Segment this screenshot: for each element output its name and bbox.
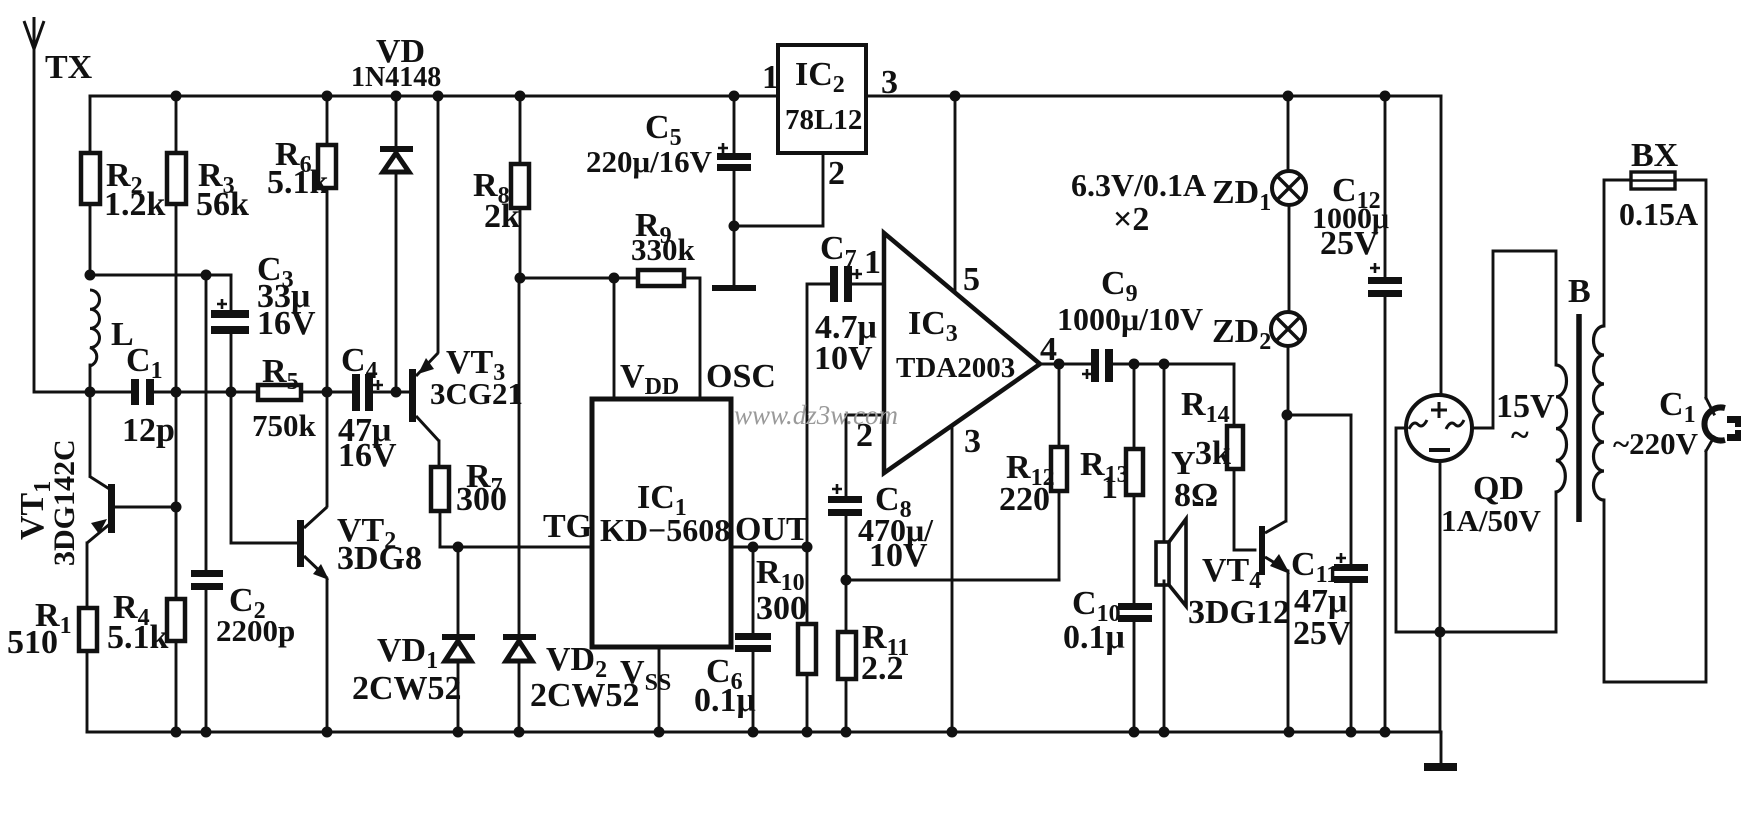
junction R5 right VT2 collector node <box>322 387 333 398</box>
wire node278 horizontal R8 to R9/VDD node <box>520 277 638 280</box>
wire R2 bottom lead to node row 275 <box>89 204 92 275</box>
svg-text:10V: 10V <box>814 340 873 377</box>
resistor R2 <box>81 153 100 204</box>
junction C12 top on rail <box>1380 91 1391 102</box>
svg-text:TX: TX <box>45 49 93 86</box>
capacitor C1 plates <box>131 379 139 405</box>
wire C11 top lead <box>1350 415 1353 564</box>
junction AC link crossing <box>1435 627 1446 638</box>
IC1 KD-5608 box <box>592 399 731 647</box>
junction C6 on ground rail <box>748 727 759 738</box>
capacitor C4 plates <box>352 374 360 411</box>
wire R10 bottom lead to ground rail <box>806 674 809 732</box>
wire C12 top lead from rail <box>1384 96 1387 277</box>
svg-text:5.1k: 5.1k <box>267 164 329 201</box>
capacitor C9 plates <box>1091 349 1099 382</box>
svg-text:5: 5 <box>963 261 980 298</box>
svg-text:3DG12: 3DG12 <box>1188 594 1290 631</box>
wire output line pin4 to C9 <box>1040 363 1092 366</box>
svg-text:220: 220 <box>999 481 1050 518</box>
svg-text:QD: QD <box>1473 470 1524 507</box>
wire C8 bottom lead to R11 node <box>845 516 848 580</box>
svg-text:~: ~ <box>1511 417 1529 454</box>
svg-text:OUT: OUT <box>735 511 809 548</box>
wire L bottom to node 392 <box>89 365 92 392</box>
resistor R4 <box>167 599 185 641</box>
ground symbol main <box>1424 763 1457 771</box>
junction VD2 on ground rail <box>514 727 525 738</box>
wire VD1 bottom lead to ground rail <box>457 664 460 732</box>
wire C2 bottom lead to ground rail <box>205 588 208 732</box>
svg-text:56k: 56k <box>196 186 249 223</box>
junction R6 top on rail <box>322 91 333 102</box>
svg-text:~220V: ~220V <box>1613 426 1699 461</box>
svg-text:TG: TG <box>543 508 592 545</box>
wire R1 bottom lead to ground rail <box>86 651 89 732</box>
wire plug lower stub <box>1706 437 1714 451</box>
capacitor C12 plates <box>1368 277 1402 284</box>
diode VD cathode bar <box>380 146 413 152</box>
lamp ZD2 <box>1271 312 1305 346</box>
svg-text:1: 1 <box>1101 469 1118 506</box>
svg-text:1: 1 <box>864 244 881 281</box>
junction VSS on ground rail <box>654 727 665 738</box>
wire output line C9 to R14 elbow <box>1114 363 1234 366</box>
wire fuse right lead down to plug <box>1675 180 1706 398</box>
svg-text:25V: 25V <box>1320 225 1379 262</box>
transistor VT3 <box>409 353 439 441</box>
svg-text:2.2: 2.2 <box>861 650 904 687</box>
wire IC3 pin3 ground lead <box>951 425 954 732</box>
wire VT4 emitter lead down to ground rail <box>1287 571 1290 732</box>
svg-text:220μ/16V: 220μ/16V <box>586 144 713 179</box>
wire OUT line from IC1 to R10 node <box>731 546 807 549</box>
plus mark C5 <box>718 143 728 153</box>
wire VT3 emitter lead up to rail <box>437 96 440 352</box>
junction R4 on ground rail <box>171 727 182 738</box>
wire R11 bottom lead to ground rail <box>845 679 848 732</box>
IC2 78L12 box <box>778 45 866 153</box>
wire IC3 pin2 stub <box>846 415 884 495</box>
junction IC3 pin3 on ground rail <box>947 727 958 738</box>
wire R14 top elbow <box>1233 364 1236 426</box>
wire secondary winding bottom loop <box>1604 451 1706 682</box>
resistor R8 <box>511 164 529 208</box>
plus mark C4 <box>373 380 383 390</box>
zener VD2 cathode bar <box>503 634 536 640</box>
resistor R11 <box>838 632 856 679</box>
wire C6 bottom lead to ground rail <box>752 652 755 732</box>
wire IC2 pin2 elbow <box>734 153 823 226</box>
op-amp IC3 TDA2003 triangle <box>884 233 1040 473</box>
svg-text:8Ω: 8Ω <box>1174 477 1218 514</box>
wire TG line to IC1 <box>440 546 592 549</box>
svg-text:5.1k: 5.1k <box>107 619 169 656</box>
svg-text:BX: BX <box>1631 137 1679 174</box>
capacitor C7 plates <box>830 266 838 302</box>
wire C3 bottom lead to R5 node <box>230 334 233 392</box>
resistor R14 <box>1227 426 1243 469</box>
svg-text:510: 510 <box>7 624 58 661</box>
svg-text:3: 3 <box>964 423 981 460</box>
wire VD1 top lead from TG line <box>457 547 460 634</box>
resistor R1 <box>79 608 97 651</box>
junction VD1 on ground rail <box>453 727 464 738</box>
junction C2 on ground rail <box>201 727 212 738</box>
wire R3 bottom lead down through C1 node to VT1 base node <box>175 204 178 599</box>
wire C2 top lead from node row 275 <box>205 275 208 570</box>
capacitor C8 plates <box>828 496 862 503</box>
junction R11 on ground rail <box>841 727 852 738</box>
junction C3 bottom R5 left node <box>226 387 237 398</box>
wire VD2 bottom lead to ground rail <box>518 664 521 732</box>
wire top supply rail right segment (IC2 pin3 to rectifier) <box>866 95 1441 98</box>
junction C12 on ground rail <box>1380 727 1391 738</box>
wire C4 right plate to VD/VT3 base node <box>373 391 410 394</box>
capacitor C3 plates <box>211 310 249 318</box>
svg-text:750k: 750k <box>252 408 317 443</box>
antenna TX <box>24 17 44 49</box>
wire ZD2 bottom to collector node <box>1287 347 1290 415</box>
wire R10 top lead <box>806 547 809 624</box>
svg-text:0.15A: 0.15A <box>1619 196 1698 232</box>
zener VD1 cathode bar <box>442 634 475 640</box>
resistor R12 <box>1051 447 1067 491</box>
svg-text:3k: 3k <box>1195 435 1231 472</box>
svg-text:3: 3 <box>881 64 898 101</box>
junction C8 R11 feedback node <box>841 575 852 586</box>
plus mark C7 <box>852 269 862 279</box>
wire rectifier minus down to ground (crosses AC link) <box>1439 461 1442 732</box>
plus mark C11 <box>1336 553 1346 563</box>
transistor VT1 <box>87 476 115 543</box>
wire rectifier right AC elbow up and over to primary winding <box>1472 251 1556 428</box>
wire speaker bottom lead to ground rail <box>1163 581 1166 732</box>
svg-text:300: 300 <box>456 481 507 518</box>
capacitor C5 plates <box>717 153 751 160</box>
svg-text:16V: 16V <box>257 305 316 342</box>
wire R13 top lead from output node <box>1133 364 1136 449</box>
wire VT2 collector lead up to node 392 <box>326 392 329 506</box>
wire C7 to IC3 pin1 stub <box>852 283 884 286</box>
wire R6 bottom lead to node 392 <box>326 188 329 392</box>
wire ZD1 to ZD2 link <box>1288 206 1291 312</box>
wire node415 to C11 <box>1287 414 1351 417</box>
capacitor C2 plates <box>191 570 223 577</box>
diode VD triangle <box>383 153 409 172</box>
speaker Y <box>1156 519 1186 606</box>
junction R3 bottom node 392 <box>171 387 182 398</box>
wire VDD pin lead <box>613 278 616 399</box>
junction lamp chain on rail <box>1283 91 1294 102</box>
wire C5 top lead from rail <box>733 96 736 153</box>
svg-text:4: 4 <box>1040 331 1057 368</box>
wire R2 top lead from rail <box>89 96 92 153</box>
svg-text:2: 2 <box>828 155 845 192</box>
junction C11 on ground rail <box>1346 727 1357 738</box>
plus mark C12 <box>1370 263 1380 273</box>
svg-text:12p: 12p <box>122 412 175 449</box>
svg-text:1N4148: 1N4148 <box>351 62 441 93</box>
wire R9 right lead and OSC pin lead <box>684 278 700 399</box>
junction L bottom node 392 <box>85 387 96 398</box>
plus mark C3 <box>217 299 227 309</box>
wire VD diode bottom lead to VT3 base node <box>395 173 398 392</box>
junction C6 on OUT line <box>748 542 759 553</box>
ground bar at C5 <box>712 285 756 291</box>
junction R10 on ground rail <box>802 727 813 738</box>
wire lamp chain lead from rail to ZD1 <box>1287 96 1290 171</box>
wire R8 node down to VD2 (crosses TG line) <box>518 278 521 634</box>
junction C2 top node 275 <box>201 270 212 281</box>
wire top supply rail left segment <box>90 95 778 98</box>
wire R14 bottom lead to VT4 base <box>1234 469 1255 550</box>
wire R8 top lead from rail <box>519 96 522 164</box>
svg-text:2200p: 2200p <box>216 613 295 648</box>
wire fuse left lead to secondary winding <box>1604 180 1631 326</box>
wire VT2 base elbow from R5 left node <box>231 392 297 543</box>
junction IC3 pin5 on rail <box>950 91 961 102</box>
fuse BX <box>1631 172 1675 189</box>
svg-text:3CG21: 3CG21 <box>430 376 523 411</box>
wire ground stem <box>1440 732 1443 763</box>
junction C10 on ground rail <box>1129 727 1140 738</box>
capacitor C10 plates <box>1118 603 1152 610</box>
svg-text:25V: 25V <box>1293 615 1352 652</box>
junction R10 C7 OUT node <box>802 542 813 553</box>
wire rail corner down to rectifier plus <box>1440 96 1443 395</box>
resistor R10 <box>798 624 816 674</box>
wire VD diode top lead from rail <box>395 96 398 146</box>
junction R2 bottom node 275 <box>85 270 96 281</box>
wire antenna lead down to C1 node <box>34 46 90 392</box>
plug C1 mains <box>1704 408 1741 441</box>
zener VD1 triangle <box>445 641 471 661</box>
wire rectifier left AC elbow <box>1396 428 1556 632</box>
junction C5 top on rail <box>729 91 740 102</box>
wire VT3 collector lead down to R7 <box>438 441 441 467</box>
wire R4 bottom lead to ground rail <box>175 641 178 732</box>
junction speaker on output line <box>1159 359 1170 370</box>
svg-text:OSC: OSC <box>706 358 776 395</box>
wire R13 to C10 link <box>1133 495 1136 602</box>
svg-text:3DG8: 3DG8 <box>337 540 422 577</box>
svg-text:TDA2003: TDA2003 <box>896 352 1015 384</box>
wire IC3 pin5 lead from rail <box>954 96 957 293</box>
junction R8 top on rail <box>515 91 526 102</box>
capacitor C11 plates <box>1334 564 1368 571</box>
resistor R7 <box>431 467 449 511</box>
junction VT3 emitter on rail <box>433 91 444 102</box>
wire R4 top lead from VT1 base node <box>175 507 178 599</box>
svg-text:×2: ×2 <box>1113 201 1149 238</box>
wire R3 top lead from rail <box>175 96 178 153</box>
wire R11 top lead <box>845 580 848 632</box>
svg-text:B: B <box>1568 273 1591 310</box>
wire plug upper stub <box>1706 398 1714 414</box>
wire C1 row horizontal segment left <box>90 391 131 394</box>
svg-text:3DG142C: 3DG142C <box>48 439 81 566</box>
resistor R5 <box>258 385 301 400</box>
svg-text:KD−5608: KD−5608 <box>600 512 730 548</box>
transistor VT4 <box>1259 521 1290 575</box>
wire VT1 emitter lead down to R1 <box>86 543 89 608</box>
plus mark C9 <box>1082 369 1092 379</box>
wire primary winding bottom lead <box>1555 492 1558 632</box>
lamp ZD1 <box>1272 171 1306 205</box>
svg-text:2CW52: 2CW52 <box>352 670 462 707</box>
junction VT4 emitter on ground rail <box>1284 727 1295 738</box>
junction R13 on output line <box>1129 359 1140 370</box>
wire R8 bottom lead to node 278 <box>519 208 522 278</box>
svg-text:www.dz3w.com: www.dz3w.com <box>734 400 898 430</box>
resistor R6 <box>318 145 336 188</box>
wire C6 top lead from OUT line <box>752 547 755 633</box>
junction VD1 on TG line <box>453 542 464 553</box>
wire C11 bottom lead to ground rail <box>1350 583 1353 732</box>
plus mark C8 <box>832 484 842 494</box>
zener VD2 triangle <box>506 641 532 661</box>
svg-text:78L12: 78L12 <box>785 104 862 136</box>
svg-text:330k: 330k <box>631 232 696 267</box>
transistor VT2 <box>297 507 329 580</box>
svg-text:1: 1 <box>762 59 779 96</box>
junction speaker on ground rail <box>1159 727 1170 738</box>
junction feedback on output line <box>1054 359 1065 370</box>
svg-text:1000μ/10V: 1000μ/10V <box>1057 301 1203 337</box>
wire R12 bottom lead <box>1058 491 1061 580</box>
wire VSS pin lead to ground rail <box>658 647 661 732</box>
svg-text:10V: 10V <box>869 537 928 574</box>
transformer B core <box>1576 314 1582 522</box>
wire C3 top lead <box>230 275 233 310</box>
junction VT2 emitter on ground rail <box>322 727 333 738</box>
junction VD anode VT3 base node <box>391 387 402 398</box>
resistor R3 <box>167 153 186 204</box>
junction VT1 base node <box>171 502 182 513</box>
wire R12 top lead to output node <box>1058 364 1061 447</box>
capacitor C6 plates <box>735 633 771 640</box>
resistor R9 <box>638 270 684 286</box>
wire C5 bottom lead to pin2 node and local ground <box>733 170 736 285</box>
wire speaker top lead from output node <box>1163 364 1166 539</box>
wire C10 bottom lead to ground rail <box>1133 622 1136 732</box>
resistor R13 <box>1126 449 1143 495</box>
wire R6 top lead from rail <box>326 96 329 145</box>
junction VD top on rail <box>391 91 402 102</box>
wire C1 row horizontal segment right to R5 <box>154 391 258 394</box>
wire node row y275 horizontal (R2/L to C2,C3) <box>90 274 231 277</box>
svg-text:16V: 16V <box>338 437 397 474</box>
wire VT4 collector lead up to ZD2 node <box>1285 415 1288 521</box>
svg-text:0.1μ: 0.1μ <box>694 682 756 719</box>
transformer B secondary winding 220V side <box>1594 326 1605 500</box>
wire node392 to C4 left plate <box>327 391 353 394</box>
wire C7 input elbow from OUT node <box>807 284 831 547</box>
wire VT1 base lead <box>115 506 176 509</box>
wire R7 bottom lead to TG line <box>439 511 442 547</box>
junction VDD R9 node <box>609 273 620 284</box>
wire C12 bottom lead to ground rail <box>1384 297 1387 732</box>
wire VT1 collector lead up to node 392 <box>89 392 92 475</box>
bridge rectifier QD <box>1406 395 1472 461</box>
svg-text:300: 300 <box>756 590 807 627</box>
junction R3 top on rail <box>171 91 182 102</box>
wire ground rail bottom <box>87 731 1441 734</box>
wire VT2 emitter lead down to ground rail <box>326 579 329 732</box>
svg-text:1A/50V: 1A/50V <box>1441 503 1542 538</box>
wire R5 right lead to node 392 <box>301 391 327 394</box>
transformer B primary winding 15V side <box>1556 365 1567 492</box>
inductor L <box>90 290 100 366</box>
junction IC2 pin2 C5 node <box>729 221 740 232</box>
junction R8 bottom node 278 <box>515 273 526 284</box>
svg-text:2k: 2k <box>484 198 520 235</box>
wire feedback row y580 to R12 <box>846 579 1059 582</box>
svg-text:6.3V/0.1A: 6.3V/0.1A <box>1071 167 1206 203</box>
junction ZD2 VT4 collector node <box>1282 410 1293 421</box>
svg-text:0.1μ: 0.1μ <box>1063 619 1125 656</box>
svg-text:1.2k: 1.2k <box>104 186 166 223</box>
